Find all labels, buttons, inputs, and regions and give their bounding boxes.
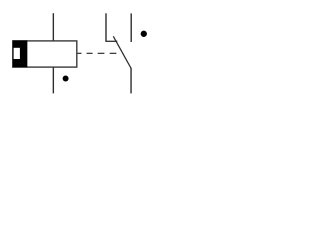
relay K1 schematic	[0, 0, 160, 108]
NC contact foot	[105, 40, 117, 42]
node dot NO contact	[141, 31, 147, 37]
dashed actuator link segment 4	[110, 52, 117, 54]
coil body L1	[13, 41, 77, 67]
wire NC contact pin	[105, 13, 107, 41]
switch lever	[113, 36, 131, 68]
coil polarity block	[13, 40, 27, 67]
dashed actuator link segment 2	[87, 52, 93, 54]
wire common pin	[130, 68, 132, 93]
background	[0, 0, 160, 108]
wire coil bottom pin	[52, 67, 54, 93]
coil block notch	[14, 48, 20, 59]
dashed actuator link segment 3	[98, 52, 105, 54]
wire coil top pin	[52, 13, 54, 41]
node dot coil pin	[63, 76, 69, 82]
dashed actuator link segment 1	[77, 52, 82, 54]
wire NO contact pin	[130, 13, 132, 42]
